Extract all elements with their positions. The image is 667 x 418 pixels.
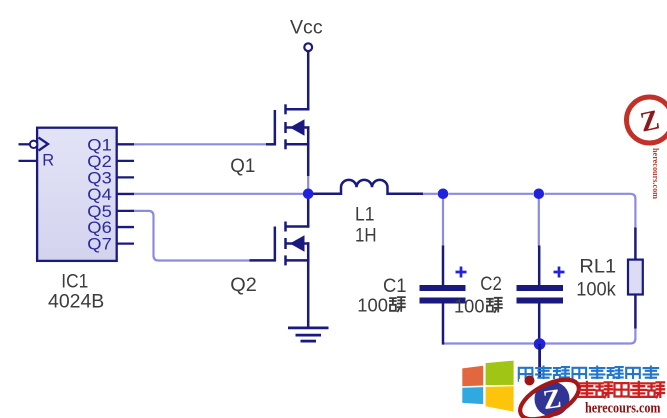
clock inversion bubble <box>30 141 37 148</box>
svg-text:Q1: Q1 <box>230 155 255 177</box>
IC U1 4024B body <box>37 128 117 261</box>
windows logo pane blue <box>462 387 483 404</box>
capacitor C1 <box>442 246 445 345</box>
wire Q1 pin to Q1 gate <box>133 143 268 145</box>
wire Q2 source to ground <box>307 242 310 328</box>
svg-text:herecours.com: herecours.com <box>651 148 660 199</box>
node C junction <box>534 189 545 200</box>
wire Q2 gate segment <box>250 259 275 262</box>
plus sign C1 <box>456 267 467 278</box>
svg-text:L1: L1 <box>355 203 375 225</box>
wire node D to RL1 bottom <box>545 328 635 344</box>
watermark Z circle <box>535 382 570 417</box>
watermark swoosh <box>514 372 585 418</box>
svg-text:herecours.com: herecours.com <box>585 401 661 417</box>
wire Vcc to Q1 drain <box>307 51 310 110</box>
node A junction <box>303 189 314 200</box>
pin Q2 stub <box>117 160 134 162</box>
wire Q4 pin to node A <box>133 193 303 195</box>
svg-text:Vcc: Vcc <box>290 17 323 39</box>
pin Q6 stub <box>117 226 134 228</box>
wire bottom rail C1 to node D <box>443 342 534 344</box>
wire node B down to C1 <box>442 199 444 247</box>
svg-text:Q7: Q7 <box>87 235 112 254</box>
pin R stub <box>19 160 38 162</box>
inductor L1 <box>311 180 423 194</box>
svg-text:C2: C2 <box>480 273 502 295</box>
resistor RL1 <box>634 228 637 329</box>
svg-text:1H: 1H <box>355 224 377 246</box>
svg-text:C1: C1 <box>383 275 407 297</box>
node D junction <box>534 338 546 350</box>
capacitor C2 <box>538 246 541 341</box>
wire node B to node C <box>449 193 534 195</box>
wire node C down to C2 <box>538 199 540 247</box>
wire L1 to node B <box>423 193 438 195</box>
Vcc power terminal <box>304 43 312 51</box>
node B junction <box>438 189 449 200</box>
transistor Q2 <box>275 222 310 266</box>
svg-text:100: 100 <box>454 296 485 317</box>
pin Q7 stub <box>117 242 134 244</box>
plus sign C2 <box>554 267 565 278</box>
watermark panel <box>519 379 667 418</box>
svg-text:R: R <box>42 151 54 170</box>
wire Q1 source to node A <box>307 126 310 176</box>
pin Q5 stub <box>117 210 134 212</box>
windows logo pane green <box>486 361 514 386</box>
transistor Q1 <box>275 104 310 149</box>
ground <box>288 328 329 341</box>
watermark blue text dian nao ruan ying jian jiao cheng wang <box>519 367 659 382</box>
svg-text:Q2: Q2 <box>230 274 256 296</box>
wire node D stub down <box>538 344 541 378</box>
top right logo ring <box>627 97 667 143</box>
pin Q3 stub <box>117 176 134 178</box>
wire node C to RL1 top <box>545 194 636 229</box>
clock triangle <box>39 138 48 151</box>
svg-text:IC1: IC1 <box>61 271 88 293</box>
pin CLK stub <box>19 143 31 145</box>
svg-text:4024B: 4024B <box>48 291 104 313</box>
wire Q5 pin to Q2 gate <box>131 211 251 261</box>
wire Q1 gate segment <box>266 143 274 146</box>
pin Q4 stub <box>117 193 134 195</box>
svg-text:100: 100 <box>357 295 388 316</box>
svg-text:100k: 100k <box>576 278 616 300</box>
wire node A to Q2 drain <box>307 194 310 228</box>
svg-text:RL1: RL1 <box>579 255 616 277</box>
watermark red text zhe li jiao cheng wang <box>579 382 664 397</box>
windows logo pane yellow <box>486 386 514 411</box>
pin Q1 stub <box>117 143 134 145</box>
windows logo pane orange <box>462 366 483 387</box>
